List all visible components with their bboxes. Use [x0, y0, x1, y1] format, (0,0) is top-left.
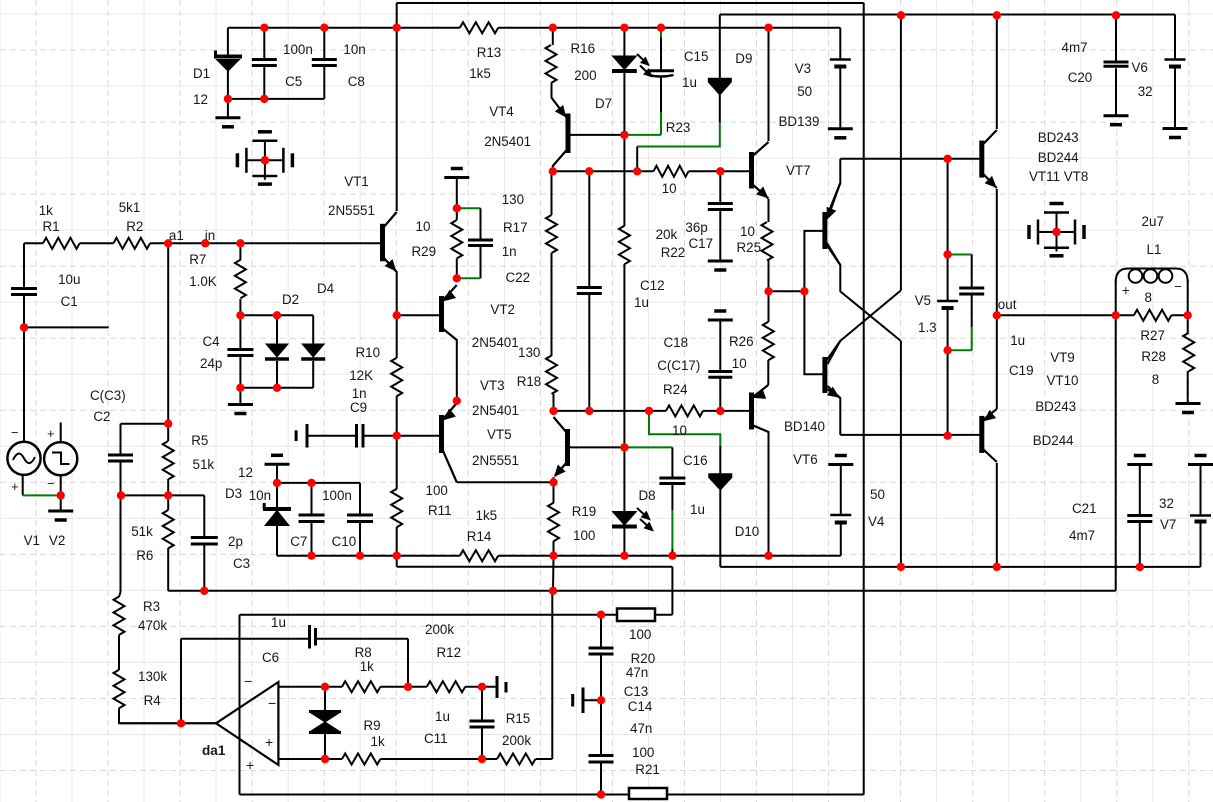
svg-text:10n: 10n — [249, 488, 271, 503]
svg-text:D3: D3 — [225, 486, 242, 501]
svg-text:51k: 51k — [131, 524, 153, 539]
svg-text:R26: R26 — [729, 334, 754, 349]
svg-text:C1: C1 — [61, 294, 78, 309]
svg-text:V2: V2 — [49, 533, 65, 548]
svg-text:R10: R10 — [356, 345, 381, 360]
svg-text:1u: 1u — [634, 295, 649, 310]
svg-text:C20: C20 — [1068, 70, 1093, 85]
svg-text:R11: R11 — [428, 503, 452, 518]
svg-text:100: 100 — [629, 627, 651, 642]
svg-text:R8: R8 — [355, 645, 372, 660]
svg-text:8: 8 — [1152, 372, 1159, 387]
svg-text:470k: 470k — [138, 618, 167, 633]
svg-text:BD244: BD244 — [1038, 150, 1079, 165]
svg-text:VT9: VT9 — [1050, 350, 1075, 365]
svg-text:V4: V4 — [868, 514, 885, 529]
svg-text:C19: C19 — [1009, 363, 1034, 378]
svg-text:R6: R6 — [136, 548, 153, 563]
svg-text:BD244: BD244 — [1033, 433, 1074, 448]
svg-text:+: + — [47, 426, 55, 441]
svg-text:R28: R28 — [1141, 349, 1166, 364]
svg-text:−: − — [244, 673, 252, 689]
svg-text:R22: R22 — [661, 245, 686, 260]
svg-text:+: + — [265, 734, 273, 750]
svg-text:R14: R14 — [467, 529, 492, 544]
svg-text:R7: R7 — [189, 252, 206, 267]
svg-text:BD140: BD140 — [784, 419, 825, 434]
svg-text:VT4: VT4 — [489, 104, 514, 119]
svg-text:C8: C8 — [348, 74, 365, 89]
svg-text:−: − — [47, 476, 55, 491]
svg-text:D8: D8 — [639, 488, 656, 503]
svg-text:2N5401: 2N5401 — [472, 335, 519, 350]
svg-text:1u: 1u — [690, 502, 705, 517]
svg-text:10u: 10u — [58, 272, 80, 287]
svg-text:10n: 10n — [343, 42, 365, 57]
svg-text:100: 100 — [573, 528, 595, 543]
svg-text:R16: R16 — [571, 41, 596, 56]
svg-text:4m7: 4m7 — [1069, 528, 1095, 543]
svg-text:in: in — [205, 228, 215, 243]
svg-text:BD139: BD139 — [779, 114, 820, 129]
svg-text:130: 130 — [518, 345, 540, 360]
svg-text:1u: 1u — [435, 709, 450, 724]
svg-text:VT7: VT7 — [786, 163, 811, 178]
svg-text:V5: V5 — [915, 293, 931, 308]
svg-text:C18: C18 — [664, 335, 689, 350]
svg-text:10: 10 — [732, 356, 747, 371]
svg-text:R2: R2 — [126, 219, 143, 234]
svg-text:D10: D10 — [735, 524, 760, 539]
svg-text:100: 100 — [632, 745, 654, 760]
svg-text:1u: 1u — [1010, 333, 1025, 348]
svg-text:1n: 1n — [352, 386, 367, 401]
svg-text:32: 32 — [1159, 496, 1174, 511]
svg-text:out: out — [998, 297, 1017, 312]
svg-text:D9: D9 — [735, 51, 752, 66]
svg-text:10: 10 — [740, 224, 755, 239]
svg-text:12: 12 — [238, 465, 253, 480]
svg-text:10: 10 — [672, 423, 687, 438]
svg-text:C6: C6 — [262, 650, 279, 665]
svg-text:5k1: 5k1 — [119, 200, 141, 215]
svg-text:C12: C12 — [640, 278, 665, 293]
svg-text:R3: R3 — [143, 599, 160, 614]
svg-text:C7: C7 — [290, 534, 307, 549]
svg-text:R18: R18 — [517, 374, 542, 389]
svg-text:V1: V1 — [24, 533, 40, 548]
svg-text:50: 50 — [870, 487, 885, 502]
svg-text:R13: R13 — [477, 45, 502, 60]
svg-text:VT3: VT3 — [480, 378, 505, 393]
svg-text:12K: 12K — [349, 368, 373, 383]
svg-text:1k5: 1k5 — [476, 508, 498, 523]
svg-text:D7: D7 — [595, 96, 612, 111]
svg-text:C2: C2 — [93, 409, 110, 424]
svg-text:D4: D4 — [317, 281, 335, 296]
svg-text:32: 32 — [1138, 84, 1153, 99]
svg-text:1k5: 1k5 — [469, 66, 491, 81]
svg-text:+: + — [246, 757, 254, 773]
svg-text:R12: R12 — [437, 645, 462, 660]
svg-text:V6: V6 — [1132, 60, 1148, 75]
svg-text:10: 10 — [662, 181, 677, 196]
svg-text:R19: R19 — [572, 504, 597, 519]
svg-text:130k: 130k — [138, 669, 167, 684]
svg-text:200: 200 — [574, 68, 596, 83]
svg-text:−: − — [1174, 279, 1182, 294]
svg-text:VT2: VT2 — [490, 302, 515, 317]
svg-text:10: 10 — [416, 219, 431, 234]
svg-text:+: + — [1122, 283, 1130, 298]
svg-text:da1: da1 — [202, 743, 226, 758]
svg-text:100: 100 — [426, 483, 448, 498]
svg-text:C11: C11 — [424, 731, 448, 746]
svg-text:−: − — [268, 695, 276, 711]
svg-text:1k: 1k — [39, 203, 53, 218]
svg-text:C15: C15 — [684, 49, 709, 64]
svg-text:50: 50 — [797, 84, 812, 99]
svg-text:47n: 47n — [630, 721, 652, 736]
svg-text:R1: R1 — [43, 219, 60, 234]
svg-text:R21: R21 — [635, 762, 660, 777]
svg-text:a1: a1 — [169, 228, 184, 243]
svg-text:36p: 36p — [685, 220, 707, 235]
svg-text:200k: 200k — [502, 733, 531, 748]
svg-text:1.0K: 1.0K — [189, 274, 217, 289]
svg-text:R27: R27 — [1140, 328, 1165, 343]
svg-text:C14: C14 — [628, 699, 653, 714]
svg-text:1k: 1k — [371, 734, 385, 749]
svg-text:24p: 24p — [200, 356, 222, 371]
svg-text:200k: 200k — [425, 622, 454, 637]
svg-text:C21: C21 — [1072, 501, 1097, 516]
svg-text:VT5: VT5 — [487, 427, 512, 442]
svg-text:1u: 1u — [682, 75, 697, 90]
svg-text:L1: L1 — [1147, 242, 1162, 257]
svg-text:C5: C5 — [285, 74, 302, 89]
svg-text:C3: C3 — [233, 556, 250, 571]
svg-text:2N5401: 2N5401 — [484, 134, 531, 149]
svg-text:C9: C9 — [350, 400, 367, 415]
svg-text:BD243: BD243 — [1035, 399, 1076, 414]
svg-text:D2: D2 — [282, 292, 299, 307]
svg-text:C17: C17 — [689, 236, 714, 251]
svg-text:R29: R29 — [412, 244, 437, 259]
svg-text:BD243: BD243 — [1038, 130, 1079, 145]
svg-text:1k: 1k — [360, 659, 374, 674]
svg-text:2u7: 2u7 — [1142, 214, 1164, 229]
svg-text:C(C3): C(C3) — [90, 388, 126, 403]
svg-text:VT11 VT8: VT11 VT8 — [1029, 169, 1088, 184]
svg-text:2N5401: 2N5401 — [472, 403, 519, 418]
svg-text:VT10: VT10 — [1047, 373, 1079, 388]
svg-text:V3: V3 — [795, 61, 811, 76]
svg-text:R20: R20 — [631, 651, 656, 666]
svg-text:2N5551: 2N5551 — [328, 203, 375, 218]
svg-text:R25: R25 — [737, 240, 762, 255]
svg-text:V7: V7 — [1160, 517, 1176, 532]
svg-text:R5: R5 — [191, 433, 208, 448]
svg-text:C4: C4 — [203, 334, 221, 349]
svg-text:C22: C22 — [506, 270, 531, 285]
svg-text:+: + — [11, 479, 19, 494]
svg-text:D1: D1 — [193, 66, 210, 81]
svg-text:100n: 100n — [322, 488, 352, 503]
svg-text:2N5551: 2N5551 — [472, 453, 519, 468]
svg-text:8: 8 — [1145, 290, 1152, 305]
svg-text:1u: 1u — [271, 615, 286, 630]
svg-text:51k: 51k — [193, 457, 215, 472]
svg-text:1n: 1n — [502, 244, 517, 259]
svg-text:R24: R24 — [663, 382, 688, 397]
svg-text:100n: 100n — [283, 42, 313, 57]
svg-text:12: 12 — [193, 92, 208, 107]
svg-text:−: − — [11, 425, 19, 440]
svg-text:C13: C13 — [624, 684, 649, 699]
svg-text:C(C17): C(C17) — [657, 358, 700, 373]
svg-text:VT6: VT6 — [793, 452, 818, 467]
svg-text:C10: C10 — [332, 534, 357, 549]
svg-text:R23: R23 — [666, 120, 691, 135]
svg-text:1.3: 1.3 — [918, 320, 937, 335]
svg-text:R4: R4 — [144, 693, 162, 708]
svg-text:R17: R17 — [503, 220, 528, 235]
svg-text:VT1: VT1 — [344, 174, 369, 189]
svg-text:2p: 2p — [228, 534, 243, 549]
svg-text:R9: R9 — [364, 718, 381, 733]
svg-text:R15: R15 — [506, 711, 531, 726]
svg-text:20k: 20k — [656, 227, 678, 242]
svg-text:4m7: 4m7 — [1062, 40, 1088, 55]
svg-text:C16: C16 — [683, 453, 708, 468]
svg-text:130: 130 — [502, 192, 524, 207]
svg-text:47n: 47n — [626, 665, 648, 680]
